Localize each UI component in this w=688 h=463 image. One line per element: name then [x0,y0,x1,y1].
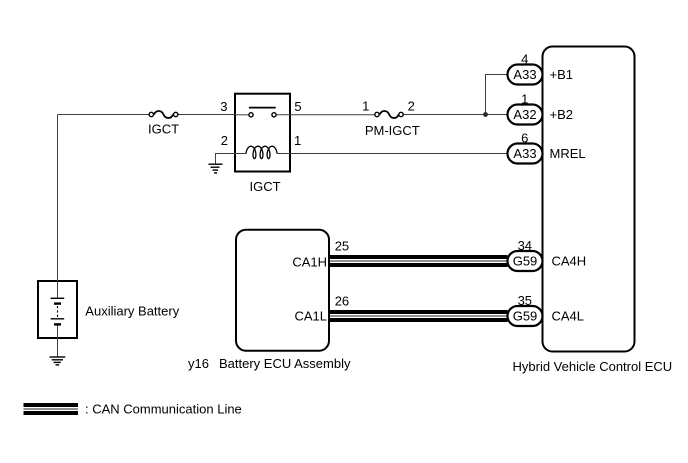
svg-text:1: 1 [362,98,369,113]
svg-text:26: 26 [335,294,349,309]
svg-text:34: 34 [518,238,532,253]
svg-text:3: 3 [220,99,227,114]
svg-text:35: 35 [518,293,532,308]
svg-text:G59: G59 [513,309,538,324]
svg-text:1: 1 [294,133,301,148]
svg-text:2: 2 [221,133,228,148]
svg-text:: CAN Communication Line: : CAN Communication Line [85,401,242,416]
svg-text:IGCT: IGCT [249,179,280,194]
svg-text:4: 4 [521,51,528,66]
svg-text:CA1L: CA1L [294,309,327,324]
svg-text:CA1H: CA1H [292,254,327,269]
svg-text:IGCT: IGCT [148,122,179,137]
svg-text:PM-IGCT: PM-IGCT [365,123,420,138]
svg-text:MREL: MREL [550,146,586,161]
svg-text:G59: G59 [513,254,538,269]
svg-text:A33: A33 [513,146,536,161]
svg-text:25: 25 [335,238,349,253]
svg-text:A32: A32 [513,107,536,122]
svg-text:CA4L: CA4L [552,309,585,324]
svg-text:CA4H: CA4H [552,254,587,269]
svg-text:1: 1 [521,92,528,107]
svg-text:Auxiliary Battery: Auxiliary Battery [85,303,179,318]
svg-text:6: 6 [521,130,528,145]
svg-text:+B1: +B1 [550,67,574,82]
svg-text:+B2: +B2 [550,107,574,122]
svg-text:y16: y16 [188,356,209,371]
svg-text:Hybrid Vehicle Control ECU: Hybrid Vehicle Control ECU [513,359,673,374]
svg-text:Battery ECU Assembly: Battery ECU Assembly [219,356,351,371]
svg-text:2: 2 [408,98,415,113]
svg-text:5: 5 [294,99,301,114]
svg-text:A33: A33 [513,67,536,82]
